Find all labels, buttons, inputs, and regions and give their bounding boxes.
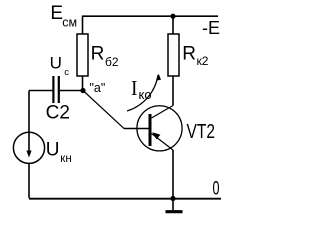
svg-text:I: I: [131, 76, 138, 100]
svg-text:R: R: [182, 44, 196, 65]
svg-text:-Е: -Е: [202, 18, 220, 38]
svg-text:R: R: [91, 44, 105, 65]
svg-text:0: 0: [213, 178, 220, 199]
svg-text:кн: кн: [60, 153, 71, 165]
svg-text:"а": "а": [90, 81, 106, 95]
svg-text:VT2: VT2: [187, 121, 216, 143]
svg-text:с: с: [64, 67, 69, 78]
svg-text:С2: С2: [46, 103, 70, 124]
svg-text:U: U: [46, 139, 60, 160]
svg-text:см: см: [62, 16, 77, 30]
svg-text:U: U: [50, 54, 62, 73]
svg-text:Е: Е: [50, 3, 63, 24]
svg-text:ко: ко: [139, 87, 152, 102]
svg-text:к2: к2: [197, 54, 209, 68]
svg-text:б2: б2: [105, 55, 119, 69]
